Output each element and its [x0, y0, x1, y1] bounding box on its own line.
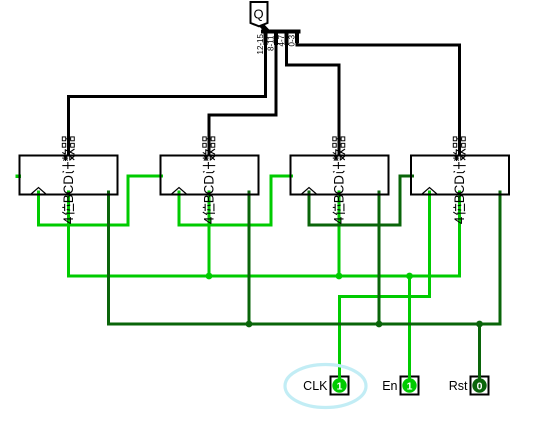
- svg-text:0: 0: [477, 381, 483, 393]
- svg-text:1: 1: [407, 381, 413, 393]
- svg-text:CLK: CLK: [303, 379, 328, 393]
- svg-text:1: 1: [337, 381, 343, 393]
- svg-text:12-15: 12-15: [256, 33, 265, 54]
- svg-text:0-3: 0-3: [288, 34, 297, 46]
- svg-text:4-7: 4-7: [277, 34, 286, 46]
- svg-text:Q: Q: [253, 6, 263, 21]
- svg-text:Rst: Rst: [449, 379, 468, 393]
- svg-text:8-11: 8-11: [267, 35, 276, 51]
- svg-text:En: En: [382, 379, 397, 393]
